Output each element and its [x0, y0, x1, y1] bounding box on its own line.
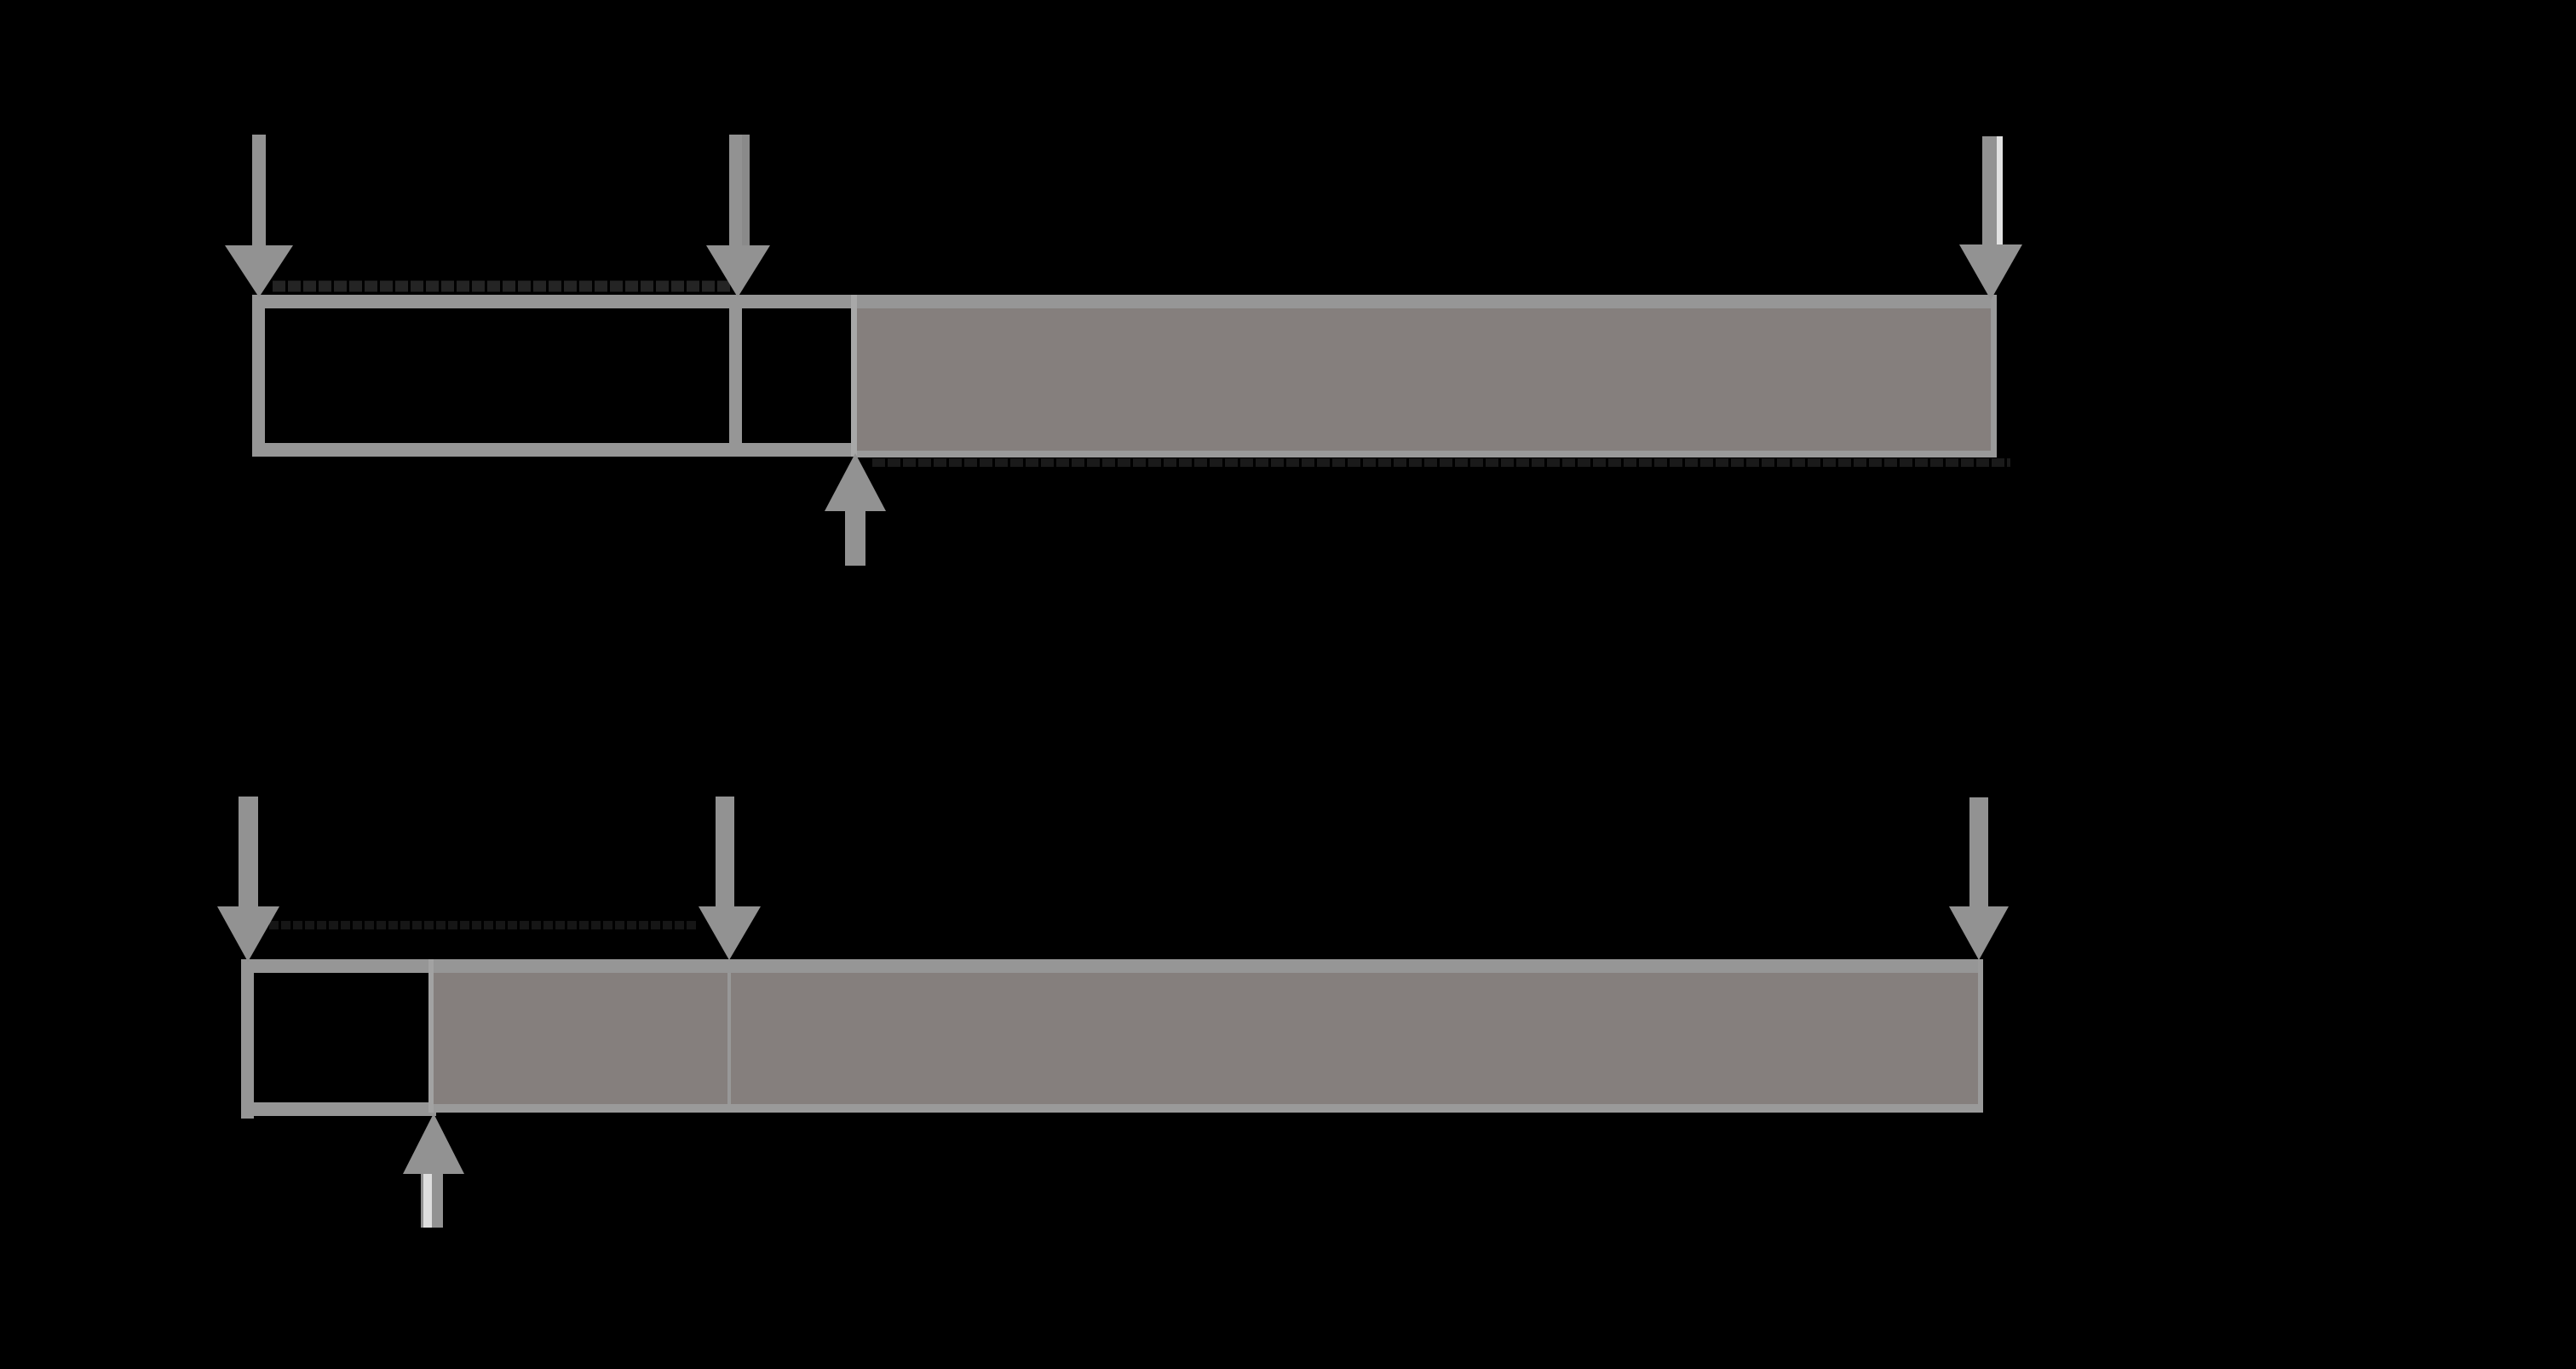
wire: bottom border of left box [241, 1102, 436, 1116]
wire: divider between box1 and box2 [729, 295, 742, 457]
arrow down 2 (middle) [729, 135, 750, 245]
wire: right border of bar [1978, 959, 1983, 1113]
wire: bottom border of outlined boxes [252, 443, 857, 457]
wire: left border of left box [241, 959, 254, 1119]
filled segment [434, 973, 1980, 1113]
node: light edge line at fill start [428, 959, 434, 1113]
dashed annotation line above left segment [273, 281, 731, 292]
arrow down 3 (right) [1982, 136, 1997, 244]
dashed annotation line below filled segment [872, 458, 2010, 467]
arrow down 3 (right) [1969, 797, 1988, 906]
arrow up (at fill boundary) [825, 453, 886, 511]
wire: bar top border [241, 959, 1983, 973]
arrow down 1 (left) [252, 135, 266, 245]
arrow up (at fill boundary) [403, 1113, 464, 1174]
filled segment [857, 308, 1991, 457]
node: light edge line at fill start [851, 295, 857, 457]
arrow down 2 (middle) [716, 797, 734, 906]
wire: right border of bar [1991, 295, 1997, 457]
dashed annotation line above left segment [257, 921, 697, 929]
wire: bar top border [252, 295, 1997, 308]
wire: left border of left box [252, 295, 265, 457]
node: light divider inside filled segment [727, 973, 731, 1104]
arrow down 1 (left) [239, 797, 258, 906]
wire: bottom border of filled segment [434, 1104, 1983, 1113]
wire: bottom border of filled segment [857, 451, 1997, 457]
